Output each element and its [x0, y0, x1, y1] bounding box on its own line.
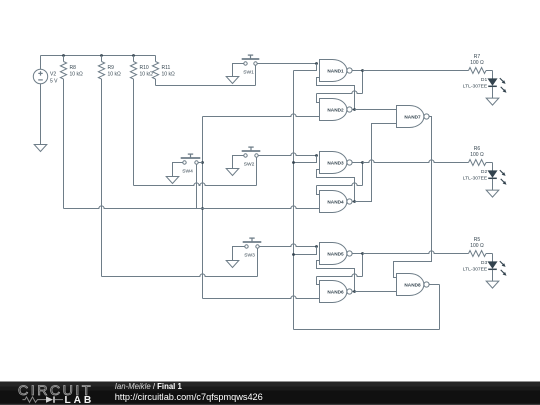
- ground D2: [486, 190, 499, 197]
- junction dot SW4 wire: [201, 161, 204, 164]
- junction dot NAND5 output: [361, 252, 364, 255]
- footer caption: [115, 382, 263, 402]
- nand gate NAND4: [320, 191, 353, 213]
- junction dot node SW3 / NAND5.A: [315, 245, 318, 248]
- wire SW3 to NAND5 input: [259, 244, 316, 247]
- switch SW1: [242, 55, 260, 75]
- svg-text:100 Ω: 100 Ω: [470, 60, 484, 66]
- ground SW1: [226, 77, 239, 84]
- wire NAND5 feedback input: [317, 261, 355, 292]
- wire NAND5.A tap to bus: [294, 247, 317, 255]
- junction dot node SW2 / NAND3.A: [315, 154, 318, 157]
- wire NAND3.A tap to bus: [294, 156, 317, 163]
- wire R11 down: [155, 79, 157, 86]
- svg-text:10 kΩ: 10 kΩ: [108, 71, 121, 77]
- wire R7 to D1: [486, 70, 493, 72]
- wire NAND1 out to R7: [363, 70, 469, 72]
- resistor R8: [60, 62, 83, 80]
- nand gate NAND6: [320, 281, 353, 303]
- wire SW4 terminal down: [196, 164, 198, 208]
- wire SW3 pulldown: [257, 248, 259, 276]
- svg-text:NAND5: NAND5: [327, 252, 344, 257]
- wire R5 to D3: [486, 253, 493, 255]
- junction dot NAND2 output: [353, 108, 356, 111]
- ground SW3: [226, 261, 239, 268]
- ground D1: [486, 98, 499, 105]
- wire NAND6 out to NAND8: [355, 291, 397, 293]
- wire SW1 to NAND1 input: [257, 63, 316, 65]
- wire NAND3 out to R6: [363, 160, 469, 163]
- junction dot bus / SW2 node: [292, 161, 295, 164]
- junction dot NAND1 output: [361, 69, 364, 72]
- wire NAND3 output feedback: [317, 163, 363, 195]
- LED D2: [463, 163, 507, 191]
- wire R9 top lead: [101, 56, 103, 62]
- junction dot R10 top: [132, 54, 135, 57]
- nand gate NAND2: [320, 99, 353, 121]
- svg-text:R6: R6: [474, 146, 481, 152]
- resistor R6: [469, 146, 487, 166]
- resistor R9: [98, 62, 121, 80]
- wire V2 top: [40, 56, 42, 70]
- svg-text:SW4: SW4: [182, 169, 193, 175]
- wire SW3 left to ground: [233, 247, 245, 261]
- svg-text:R9: R9: [108, 65, 115, 71]
- resistor R5: [469, 237, 487, 257]
- svg-text:LTL-307EE: LTL-307EE: [463, 176, 488, 182]
- wire NAND6 output: [353, 291, 355, 293]
- svg-text:SW3: SW3: [244, 253, 255, 259]
- svg-text:NAND1: NAND1: [327, 69, 344, 74]
- resistor R11: [152, 62, 175, 80]
- svg-text:SW2: SW2: [244, 162, 255, 168]
- wire NAND5 output feedback: [317, 254, 363, 285]
- wire NAND1 output feedback: [317, 71, 363, 103]
- wire R10 to SW2: [134, 183, 257, 186]
- svg-text:100 Ω: 100 Ω: [470, 152, 484, 158]
- svg-text:R11: R11: [162, 65, 171, 71]
- wire NAND7 out to NAND8 input: [394, 117, 432, 278]
- junction dot reset rail: [201, 207, 204, 210]
- wire NAND5 out to R5: [363, 251, 469, 254]
- wire NAND3 output: [353, 162, 363, 164]
- wire V2 bottom: [40, 84, 42, 145]
- wire SW4 node vertical: [202, 117, 204, 299]
- wire R10 top lead: [133, 56, 135, 62]
- ground V2: [34, 145, 47, 152]
- wire NAND1 output: [353, 70, 363, 72]
- svg-text:NAND7: NAND7: [404, 115, 421, 120]
- svg-text:R5: R5: [474, 237, 481, 243]
- voltage source V2: [33, 69, 58, 84]
- svg-text:NAND8: NAND8: [404, 283, 421, 288]
- svg-text:D2: D2: [481, 169, 488, 175]
- resistor R7: [469, 54, 487, 74]
- wire NAND2 reset rail: [203, 114, 320, 117]
- svg-text:http://circuitlab.com/c7qfspmq: http://circuitlab.com/c7qfspmqws426: [115, 392, 263, 402]
- wire NAND4 output: [353, 201, 355, 203]
- svg-text:D1: D1: [481, 77, 488, 83]
- wire top supply rail: [41, 55, 156, 57]
- svg-text:LTL-307EE: LTL-307EE: [463, 267, 488, 273]
- nand gate NAND1: [320, 60, 353, 82]
- wire R9 down: [101, 79, 103, 277]
- wire SW2 left to ground: [233, 156, 244, 169]
- wire NAND8 out: [430, 284, 440, 286]
- wire SW4 left to ground: [173, 163, 183, 177]
- wire NAND2 out to NAND7: [355, 109, 397, 111]
- svg-text:NAND3: NAND3: [327, 161, 344, 166]
- junction dot R9 top: [100, 54, 103, 57]
- svg-text:NAND6: NAND6: [327, 290, 344, 295]
- LED D1: [463, 71, 507, 99]
- svg-text:NAND4: NAND4: [327, 200, 344, 205]
- junction dot node SW1 / NAND1.A: [315, 62, 318, 65]
- footer bar: [0, 382, 540, 405]
- wire R10 down: [133, 79, 135, 186]
- svg-text:100 Ω: 100 Ω: [470, 243, 484, 249]
- wire NAND3 feedback input: [317, 170, 355, 202]
- nand gate NAND8: [397, 274, 430, 296]
- svg-text:Ian-Meikle / Final 1: Ian-Meikle / Final 1: [115, 382, 183, 391]
- svg-text:LTL-307EE: LTL-307EE: [463, 84, 488, 90]
- junction dot bus / SW3 node: [292, 253, 295, 256]
- wire R8 top lead: [63, 56, 65, 62]
- svg-text:D3: D3: [481, 260, 488, 266]
- switch SW2: [242, 147, 261, 167]
- wire bottom return: [294, 329, 440, 331]
- wire R9 to SW3: [102, 274, 258, 277]
- junction dot R8 top: [62, 54, 65, 57]
- svg-text:LAB: LAB: [65, 395, 95, 405]
- wire NAND2 output: [353, 109, 355, 111]
- wire NAND4 reset rail: [64, 206, 320, 209]
- ground SW4: [166, 177, 179, 184]
- svg-text:10 kΩ: 10 kΩ: [70, 71, 83, 77]
- wire R11 top lead: [155, 56, 157, 62]
- wire R6 to D2: [486, 162, 493, 164]
- switch SW3: [243, 238, 262, 258]
- junction dot NAND4 output: [353, 200, 356, 203]
- svg-text:10 kΩ: 10 kΩ: [162, 71, 175, 77]
- wire SW4 right to node: [198, 162, 202, 164]
- wire SW1 left to ground: [233, 64, 244, 77]
- nand gate NAND7: [397, 106, 430, 128]
- svg-text:R7: R7: [474, 54, 481, 60]
- wire SW2 to NAND3 input: [258, 153, 316, 156]
- wire SW2 pulldown: [256, 157, 258, 185]
- wire SW1 pulldown: [255, 65, 257, 85]
- nand gate NAND3: [320, 152, 353, 174]
- svg-text:NAND2: NAND2: [327, 108, 344, 113]
- ground D3: [486, 281, 499, 288]
- svg-text:V2: V2: [50, 72, 56, 78]
- svg-text:SW1: SW1: [243, 70, 254, 76]
- wire NAND8 output drop: [439, 285, 441, 330]
- wire R11 to SW1: [156, 85, 256, 87]
- CircuitLab logo: [18, 383, 94, 405]
- svg-text:10 kΩ: 10 kΩ: [140, 71, 153, 77]
- wire R8 to reset rail: [63, 79, 65, 209]
- svg-text:5 V: 5 V: [50, 79, 58, 85]
- wire NAND4 out to NAND7: [355, 124, 397, 202]
- switch SW4: [181, 154, 201, 174]
- ground SW2: [226, 169, 239, 176]
- junction dot NAND6 output: [353, 290, 356, 293]
- junction dot NAND3 output: [361, 161, 364, 164]
- wire feedback bus: [293, 71, 295, 330]
- nand gate NAND5: [320, 243, 353, 265]
- wire NAND6 reset rail: [203, 296, 320, 299]
- svg-text:R10: R10: [140, 65, 149, 71]
- wire NAND5 output: [353, 253, 363, 255]
- resistor R10: [130, 62, 153, 80]
- LED D3: [463, 254, 507, 282]
- svg-text:R8: R8: [70, 65, 77, 71]
- wire NAND1.A tap to bus: [294, 64, 317, 71]
- wire NAND1 feedback input: [317, 78, 355, 110]
